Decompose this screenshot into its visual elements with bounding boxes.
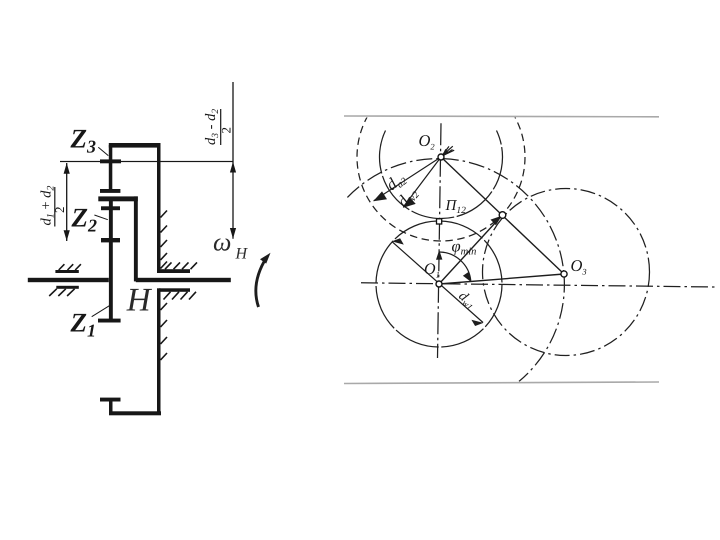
leader line Z2 (94, 215, 107, 220)
bearing support lower bar (56, 286, 79, 289)
svg-text:2: 2 (52, 207, 67, 214)
dimension line left (d1+d2)/2 (64, 163, 70, 241)
gear Z3 bottom cap (mesh with Z2) (100, 189, 120, 193)
hatching above upper ground bar (165, 262, 197, 269)
pitch circle d_w1 centered O1 (376, 221, 502, 347)
dimension d_w2 radius line (403, 146, 449, 207)
svg-text:H: H (126, 282, 153, 318)
line O1-O3 (439, 274, 564, 284)
ground bar lower (ring fixing) (159, 288, 190, 292)
leader line Z1 (92, 305, 110, 316)
line O2-O3 (441, 157, 564, 274)
label (d3-d2)/2 rotated (203, 109, 234, 145)
bearing support upper bar (55, 270, 78, 273)
node O3 (561, 271, 567, 277)
gray frame line top (344, 115, 659, 118)
ring bottom left stub (109, 400, 113, 415)
carrier arm vertical (134, 196, 138, 281)
dimension d_w1 diameter line (392, 242, 483, 323)
hatching below lower bearing (49, 289, 74, 296)
curved rotation arrow (256, 258, 267, 308)
node O2 (438, 154, 444, 160)
hatching on upper rim right side (161, 211, 168, 269)
svg-text:H: H (235, 246, 249, 263)
ring gear Z3 stem (109, 145, 113, 190)
ring bottom bar (109, 411, 161, 415)
node T tangency point (499, 212, 506, 219)
hatching above upper bearing (59, 264, 81, 270)
horizontal centerline through O1 (361, 283, 716, 287)
angle arc phi_min (440, 252, 471, 281)
dimension d_a2 radius line (374, 150, 453, 201)
ring bottom tooth cap (100, 398, 121, 402)
output shaft (carrier H) (136, 278, 231, 282)
carrier circle arc centered O1 (dash-dot) (347, 159, 564, 382)
hatching below lower ground bar (164, 292, 197, 300)
node O1 (436, 281, 442, 287)
gear Z1 bottom cap (98, 319, 121, 323)
hatching on lower rim right side (161, 303, 168, 360)
dimension line right (d3-d2)/2 (230, 82, 236, 239)
svg-text:d3 - d2: d3 - d2 (203, 109, 221, 145)
svg-text:2: 2 (219, 127, 234, 134)
node P12 pitch point (square) (437, 219, 442, 224)
leader line Z3 (98, 147, 108, 155)
carrier/planet block Z2 bracket (98, 196, 138, 201)
line O1-T with arrowhead (439, 218, 500, 284)
ring gear Z3 rim upper (157, 143, 161, 273)
svg-text:d1 + d2: d1 + d2 (39, 186, 57, 226)
label (d1+d2)/2 rotated (39, 186, 68, 227)
gray frame line bottom (344, 382, 659, 384)
gear Z3 tooth bar (100, 159, 121, 163)
addendum circle d_a2 centered O2 (dashed) (357, 73, 525, 241)
addendum circle of second planet centered O3 (dash-dot) (483, 189, 650, 356)
gear Z2 tooth bar B (mesh with Z1) (101, 238, 120, 242)
ground bar upper (ring fixing) (157, 269, 190, 273)
svg-text:ω: ω (213, 228, 231, 257)
gear Z2 tooth bar A (101, 206, 120, 210)
planet/sun stem (109, 201, 113, 322)
pitch circle d_w2 centered O2 (380, 131, 503, 219)
thin reference line (mesh level Z3-Z2) (60, 161, 233, 162)
vertical centerline O1-O2 (438, 123, 442, 358)
input shaft (28, 278, 109, 282)
ring gear Z3 rim lower (157, 288, 161, 415)
ring gear Z3 top bracket (109, 143, 161, 148)
